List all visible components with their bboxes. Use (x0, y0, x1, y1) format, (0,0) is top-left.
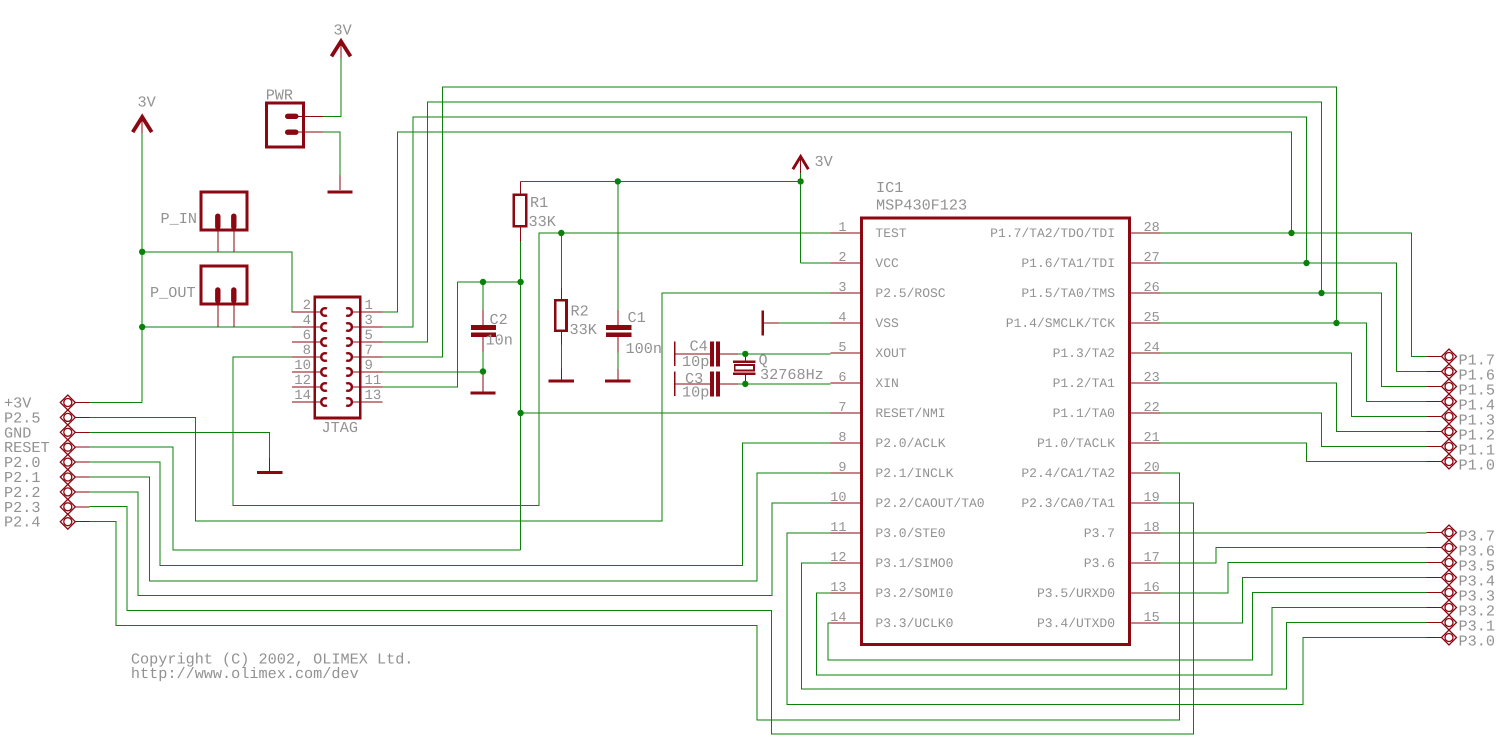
svg-text:9: 9 (365, 358, 373, 374)
svg-text:2: 2 (838, 251, 846, 266)
svg-text:7: 7 (365, 343, 373, 359)
svg-text:VCC: VCC (875, 256, 899, 271)
svg-text:13: 13 (830, 581, 846, 596)
svg-text:15: 15 (1144, 611, 1160, 626)
svg-text:5: 5 (365, 328, 373, 344)
svg-text:P3.6: P3.6 (1084, 556, 1115, 571)
svg-text:4: 4 (838, 311, 846, 326)
svg-text:11: 11 (365, 373, 382, 389)
svg-text:C1: C1 (628, 309, 646, 327)
svg-text:19: 19 (1144, 491, 1160, 506)
svg-text:P3.2/SOMI0: P3.2/SOMI0 (875, 586, 953, 601)
svg-text:R1: R1 (530, 194, 548, 212)
svg-text:33K: 33K (570, 321, 598, 339)
svg-text:4: 4 (303, 313, 311, 329)
svg-text:P1.5/TA0/TMS: P1.5/TA0/TMS (1021, 286, 1115, 301)
svg-text:6: 6 (838, 371, 846, 386)
svg-text:P2.4: P2.4 (4, 514, 40, 532)
svg-text:P1.4/SMCLK/TCK: P1.4/SMCLK/TCK (1006, 316, 1115, 331)
svg-text:23: 23 (1144, 371, 1160, 386)
svg-text:P_IN: P_IN (161, 210, 197, 228)
svg-text:1: 1 (838, 221, 846, 236)
svg-text:28: 28 (1144, 221, 1160, 236)
svg-text:P_OUT: P_OUT (150, 284, 196, 302)
svg-text:P1.6/TA1/TDI: P1.6/TA1/TDI (1021, 256, 1115, 271)
svg-text:10p: 10p (682, 353, 709, 371)
svg-text:P1.0/TACLK: P1.0/TACLK (1037, 436, 1115, 451)
svg-text:P2.1/INCLK: P2.1/INCLK (875, 466, 953, 481)
svg-text:14: 14 (294, 388, 311, 404)
svg-text:3: 3 (838, 281, 846, 296)
svg-text:17: 17 (1144, 551, 1160, 566)
svg-text:2: 2 (303, 298, 311, 314)
svg-text:P3.3/UCLK0: P3.3/UCLK0 (875, 616, 953, 631)
svg-text:8: 8 (303, 343, 311, 359)
svg-text:1: 1 (365, 298, 373, 314)
svg-text:10: 10 (830, 491, 846, 506)
svg-text:3V: 3V (138, 94, 157, 112)
svg-text:P1.1/TA0: P1.1/TA0 (1053, 406, 1115, 421)
svg-text:3V: 3V (334, 22, 353, 40)
svg-text:XIN: XIN (875, 376, 898, 391)
svg-text:10n: 10n (486, 332, 513, 350)
svg-text:22: 22 (1144, 401, 1160, 416)
svg-text:7: 7 (838, 401, 846, 416)
svg-text:33K: 33K (529, 213, 557, 231)
svg-text:21: 21 (1144, 431, 1160, 446)
svg-text:R2: R2 (571, 303, 589, 321)
svg-text:IC1: IC1 (876, 179, 903, 197)
svg-text:25: 25 (1144, 311, 1160, 326)
svg-text:P2.5/ROSC: P2.5/ROSC (875, 286, 945, 301)
svg-text:P1.2/TA1: P1.2/TA1 (1053, 376, 1116, 391)
svg-text:P1.3/TA2: P1.3/TA2 (1053, 346, 1115, 361)
svg-text:P2.0/ACLK: P2.0/ACLK (875, 436, 945, 451)
svg-text:32768Hz: 32768Hz (760, 366, 824, 384)
svg-text:P3.5/URXD0: P3.5/URXD0 (1037, 586, 1115, 601)
svg-text:VSS: VSS (875, 316, 899, 331)
svg-text:P2.3/CA0/TA1: P2.3/CA0/TA1 (1021, 496, 1115, 511)
svg-text:13: 13 (365, 388, 382, 404)
svg-text:3: 3 (365, 313, 373, 329)
svg-text:5: 5 (838, 341, 846, 356)
svg-text:P1.0: P1.0 (1459, 457, 1495, 475)
svg-text:XOUT: XOUT (875, 346, 906, 361)
svg-text:C2: C2 (490, 311, 508, 329)
svg-text:P1.7/TA2/TDO/TDI: P1.7/TA2/TDO/TDI (990, 226, 1115, 241)
svg-text:8: 8 (838, 431, 846, 446)
svg-text:P2.2/CAOUT/TA0: P2.2/CAOUT/TA0 (875, 496, 984, 511)
svg-text:P3.1/SIMO0: P3.1/SIMO0 (875, 556, 953, 571)
svg-text:11: 11 (830, 521, 846, 536)
svg-text:12: 12 (830, 551, 846, 566)
svg-text:P3.0: P3.0 (1459, 633, 1495, 651)
svg-text:RESET/NMI: RESET/NMI (875, 406, 945, 421)
svg-text:20: 20 (1144, 461, 1160, 476)
svg-text:http://www.olimex.com/dev: http://www.olimex.com/dev (131, 665, 359, 683)
svg-text:P3.0/STE0: P3.0/STE0 (875, 526, 945, 541)
svg-text:MSP430F123: MSP430F123 (876, 197, 967, 215)
svg-text:P3.4/UTXD0: P3.4/UTXD0 (1037, 616, 1115, 631)
svg-text:10: 10 (294, 358, 311, 374)
svg-text:P3.7: P3.7 (1084, 526, 1115, 541)
svg-text:TEST: TEST (875, 226, 906, 241)
svg-text:12: 12 (294, 373, 311, 389)
svg-text:P2.4/CA1/TA2: P2.4/CA1/TA2 (1021, 466, 1115, 481)
svg-text:24: 24 (1144, 341, 1160, 356)
svg-text:JTAG: JTAG (322, 419, 358, 437)
svg-text:PWR: PWR (266, 87, 293, 105)
svg-text:18: 18 (1144, 521, 1160, 536)
svg-text:10p: 10p (682, 384, 709, 402)
svg-text:27: 27 (1144, 251, 1160, 266)
svg-text:100n: 100n (626, 340, 662, 358)
svg-text:16: 16 (1144, 581, 1160, 596)
svg-text:3V: 3V (815, 153, 834, 171)
svg-text:26: 26 (1144, 281, 1160, 296)
svg-text:9: 9 (838, 461, 846, 476)
svg-text:6: 6 (303, 328, 311, 344)
svg-text:14: 14 (830, 611, 846, 626)
